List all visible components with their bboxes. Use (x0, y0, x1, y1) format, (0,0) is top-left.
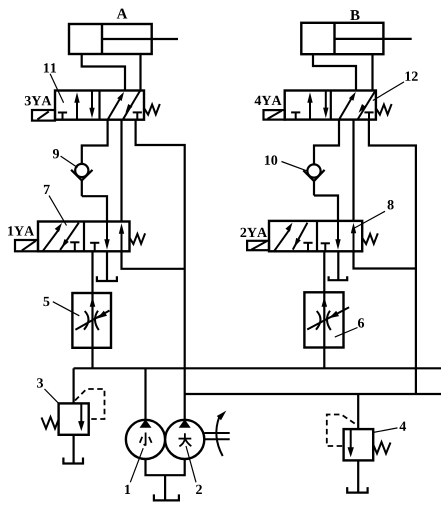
relief valve 3 pilot line (75, 389, 105, 419)
cylinder A (69, 24, 178, 54)
pump 1 outlet triangle (140, 419, 152, 428)
spring of valve 12 (376, 104, 391, 115)
label 1YA (8, 226, 34, 235)
tank symbol below relief valve 4 (347, 487, 367, 493)
label 12 (405, 72, 417, 81)
flow valve 5 throttle arcs (84, 311, 99, 330)
pump 2 drive shaft (204, 433, 229, 439)
pump 2 (big) circle (165, 420, 204, 459)
valve 8 body (4/2 directional valve) (269, 221, 362, 251)
label 2YA (240, 228, 267, 237)
wire B cap-side to valve 12 (313, 54, 356, 90)
pump bus line 2 (big pump) (185, 393, 441, 395)
valve 12 right box arrow up-right (339, 92, 356, 120)
valve 7 body (4/2 directional valve) (38, 222, 130, 252)
relief valve 4 flow arrow (348, 429, 354, 457)
solenoid 2YA (247, 241, 269, 250)
leader line 4 (374, 428, 398, 433)
leader line 10 (282, 162, 307, 171)
valve 7 left box blocked port (70, 242, 79, 251)
label 1 (125, 485, 130, 494)
valve 11 left box up arrow (74, 92, 79, 120)
solenoid 3YA (32, 110, 55, 121)
valve 7 left box arrow up-right (43, 223, 62, 251)
pump suction piping (146, 459, 185, 500)
wire valve 12 port1 to check valve 10 (314, 120, 339, 165)
wire valve 11 port3 to big pump line (136, 120, 185, 420)
label 3YA (25, 96, 52, 105)
valve 7 right box down arrow (104, 222, 109, 250)
spring of valve 11 (145, 104, 160, 115)
wire relief valve 4 to tank (357, 460, 359, 492)
wire A rod-side to valve 11 (139, 54, 141, 91)
tank symbol below valve 7 (97, 276, 117, 281)
wire valve 8 to bypass junction (354, 251, 416, 268)
relief valve 4 pilot line (327, 415, 355, 447)
valve 12 body (4/2 directional valve) (285, 91, 376, 120)
valve 8 left box arrow down-left (293, 223, 308, 250)
flow valve 6 adjust arrow (307, 307, 349, 329)
valve 11 body (4/2 directional valve) (55, 91, 144, 120)
valve 12 right box blocked port (364, 112, 373, 119)
valve 7 right box up arrow (119, 223, 124, 251)
label 10 (265, 155, 277, 164)
valve 11 right box arrow down-left (123, 91, 140, 120)
valve 11 left box blocked port (58, 113, 67, 120)
solenoid 1YA (15, 240, 38, 251)
leader line 6 (335, 328, 358, 338)
wire B rod-side to valve 12 (371, 54, 373, 90)
spring of valve 8 (363, 233, 378, 244)
leader line 3 (45, 389, 59, 404)
spring of valve 7 (130, 233, 145, 244)
pump 2 outlet triangle (179, 419, 191, 428)
flow control valve 6 body (304, 292, 343, 347)
valve 11 left box down arrow (89, 91, 94, 119)
wire valve 11 port1 to check valve 9 (82, 120, 108, 164)
pump 1 (small) circle (126, 420, 165, 459)
flow control valve 5 body (72, 293, 111, 348)
leader line 9 (61, 156, 78, 167)
valve 8 right box blocked port (321, 243, 330, 251)
leader line 11 (50, 74, 64, 103)
tank symbol below valve 8 (329, 276, 348, 280)
relief valve 3 spring (42, 417, 59, 429)
tank symbol below relief valve 3 (63, 458, 83, 464)
wire valve 11 port2 to valve 7 (120, 120, 122, 222)
wire valve 8 through flow valve 6 to bus (323, 251, 325, 368)
flow valve 6 up arrow (322, 297, 328, 307)
label 4 (399, 422, 406, 431)
label 5 (43, 297, 49, 306)
pump 1 character xiao (140, 433, 152, 446)
wire valve 12 port3 to bus 2 (369, 120, 416, 394)
label B (350, 10, 359, 20)
wire A cap-side to valve 11 (82, 54, 125, 91)
valve 8 right box down arrow (335, 221, 340, 250)
label 7 (44, 185, 50, 194)
wire relief valve 3 to tank (72, 435, 74, 463)
label 9 (53, 149, 59, 158)
leader line 5 (53, 302, 80, 316)
wire check valve 10 to valve 8 (314, 196, 338, 221)
label 4YA (255, 96, 282, 105)
valve 7 right box blocked port (90, 243, 99, 252)
label 11 (44, 63, 56, 72)
valve 12 right box arrow down-left (358, 92, 375, 120)
wire valve 8 to tank (337, 251, 339, 279)
solenoid 4YA (264, 110, 285, 120)
tank symbol below pumps (154, 494, 179, 500)
flow valve 5 up arrow (90, 297, 96, 307)
valve 8 left box blocked port (303, 243, 312, 252)
leader line 8 (355, 211, 386, 228)
leader line 12 (373, 82, 404, 101)
flow valve 6 throttle arcs (316, 311, 331, 330)
relief valve 3 flow arrow (78, 403, 84, 431)
relief valve 4 spring (373, 442, 390, 454)
valve 11 right box arrow up-right (108, 92, 124, 120)
valve 12 left box down arrow (323, 91, 328, 119)
label 2 (196, 485, 202, 494)
wire valve 12 port2 to valve 8 (352, 120, 354, 221)
label 6 (358, 318, 364, 327)
leader line 7 (49, 196, 67, 226)
wire valve 7 through flow valve 5 to pump bus (91, 251, 93, 368)
pump bus line 1 (small pump) (74, 367, 441, 369)
valve 8 left box arrow up-right (274, 223, 293, 252)
relief valve 4 body (344, 429, 374, 460)
wire bus 2 to relief valve 4 (357, 394, 359, 429)
valve 12 left box blocked port (291, 112, 300, 119)
wire check valve 9 to valve 7 (82, 196, 107, 221)
pump 2 rotation arrow (216, 411, 226, 456)
check valve 10 (303, 164, 324, 195)
valve 7 left box arrow down-left (60, 223, 79, 250)
wire pump bus to relief valve 3 (72, 368, 74, 403)
relief valve 3 body (59, 403, 89, 434)
valve 12 left box up arrow (307, 92, 312, 119)
leader line 2 (186, 446, 196, 482)
wire valve 7 to bypass junction (122, 251, 185, 268)
valve 11 right box blocked port (133, 112, 142, 119)
label 3 (37, 378, 43, 387)
pump 2 character da (179, 433, 192, 446)
flow valve 5 adjust arrow (75, 311, 109, 330)
label A (117, 9, 128, 19)
leader line 1 (130, 448, 143, 482)
label 8 (388, 200, 394, 209)
cylinder B (301, 23, 411, 54)
wire valve 7 to tank (106, 251, 108, 280)
check valve 9 (71, 164, 92, 196)
wire small pump to bus 1 (144, 368, 146, 420)
valve 8 right box up arrow (351, 223, 356, 252)
